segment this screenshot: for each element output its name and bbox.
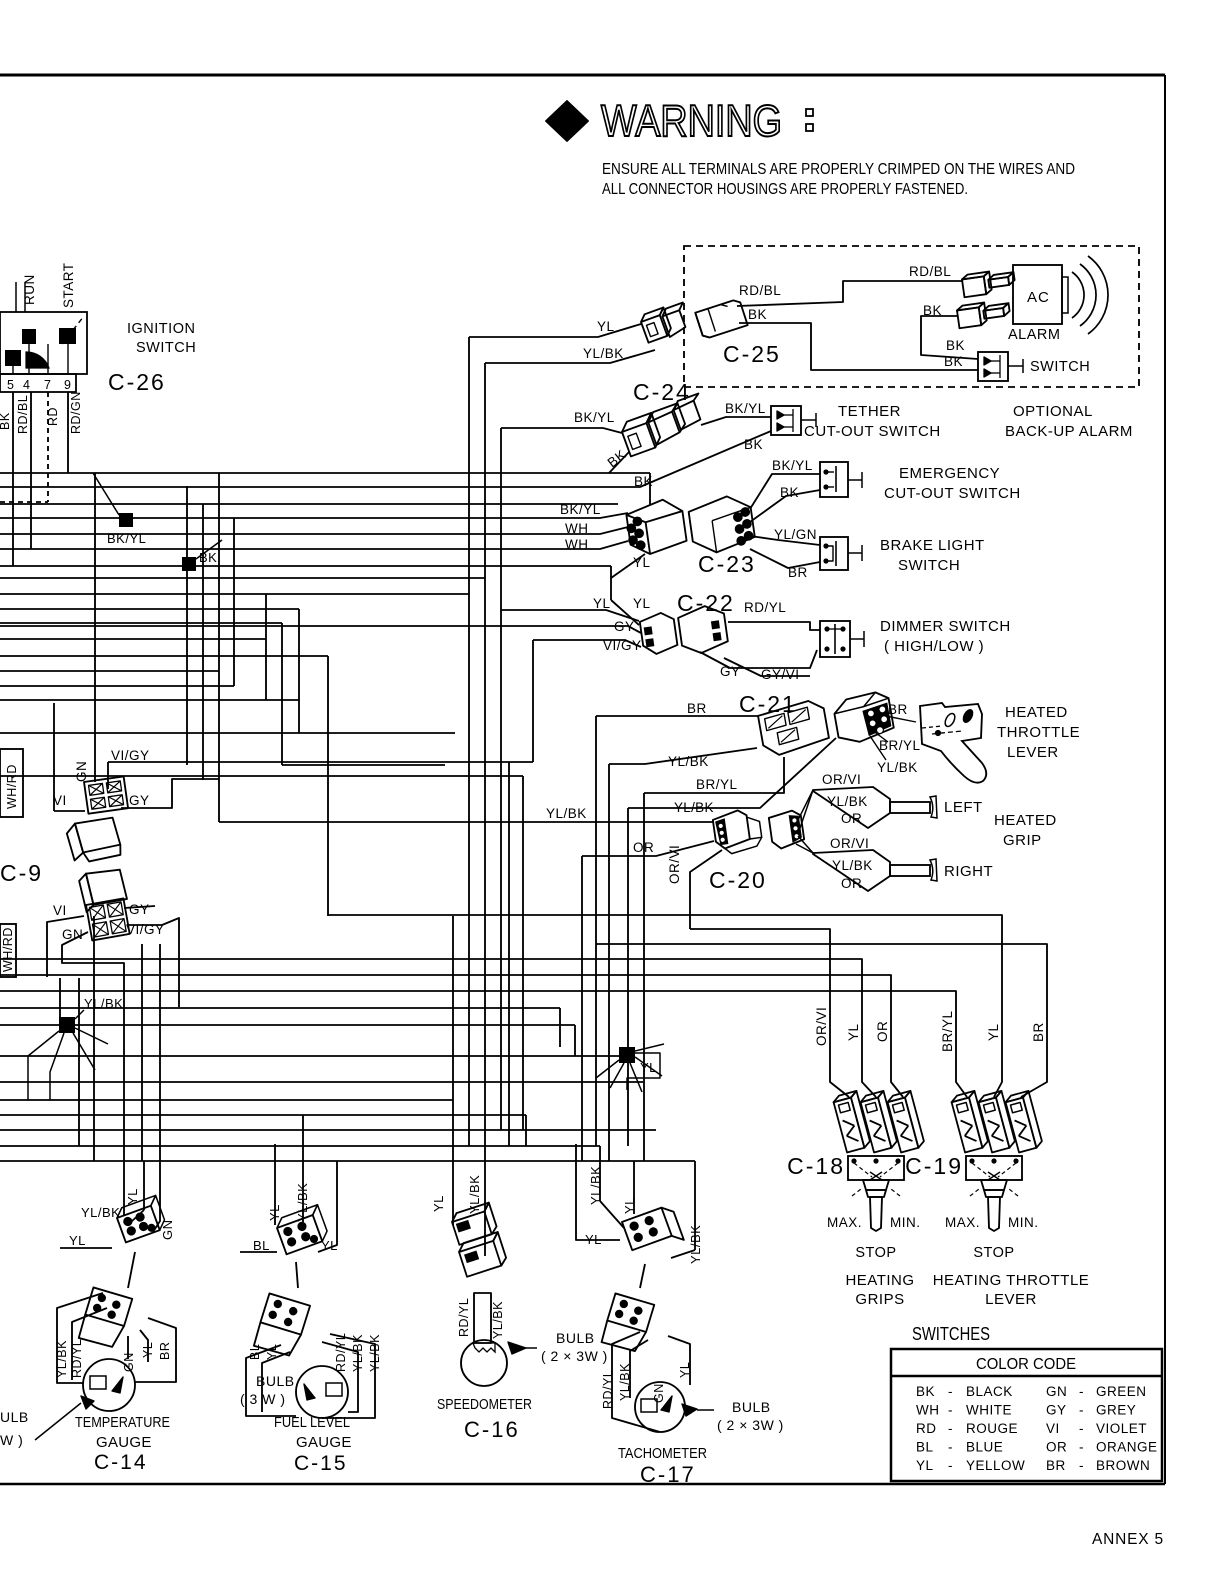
- svg-text:C-15: C-15: [294, 1452, 348, 1475]
- svg-text:C-9: C-9: [0, 860, 43, 886]
- svg-text:RD: RD: [916, 1421, 937, 1436]
- svg-text:OR: OR: [1046, 1440, 1067, 1455]
- svg-text:YL/BK: YL/BK: [491, 1301, 505, 1339]
- svg-text:CUT-OUT SWITCH: CUT-OUT SWITCH: [804, 423, 941, 440]
- svg-text:WH: WH: [565, 537, 589, 552]
- svg-text:LEFT: LEFT: [944, 799, 983, 816]
- svg-text:SWITCHES: SWITCHES: [912, 1324, 990, 1344]
- svg-text:RD/YL: RD/YL: [457, 1298, 471, 1337]
- svg-text:GN: GN: [1046, 1384, 1067, 1399]
- svg-text:( 2 × 3W ): ( 2 × 3W ): [541, 1348, 608, 1364]
- svg-text:( HIGH/LOW ): ( HIGH/LOW ): [884, 638, 984, 655]
- svg-text:RIGHT: RIGHT: [944, 863, 993, 880]
- svg-text:SWITCH: SWITCH: [1030, 359, 1090, 375]
- svg-text:GN: GN: [652, 1383, 666, 1403]
- svg-text:BK: BK: [946, 338, 965, 353]
- svg-text:GY: GY: [720, 664, 741, 679]
- svg-text:ULB: ULB: [0, 1409, 29, 1425]
- svg-text:BULB: BULB: [556, 1330, 595, 1346]
- svg-text:BK: BK: [0, 412, 12, 430]
- svg-text:YL: YL: [633, 596, 651, 611]
- svg-text:HEATING THROTTLE: HEATING THROTTLE: [933, 1272, 1090, 1289]
- svg-text:CUT-OUT SWITCH: CUT-OUT SWITCH: [884, 485, 1021, 502]
- svg-text:TETHER: TETHER: [838, 403, 901, 420]
- svg-text:HEATING: HEATING: [845, 1272, 914, 1289]
- svg-text:YELLOW: YELLOW: [966, 1458, 1025, 1473]
- svg-text:BR/YL: BR/YL: [696, 777, 738, 792]
- svg-text:GY: GY: [1046, 1403, 1067, 1418]
- svg-text:BR: BR: [1031, 1022, 1046, 1042]
- svg-text:YL/BK: YL/BK: [827, 794, 868, 809]
- svg-text:WH/RD: WH/RD: [1, 927, 15, 972]
- svg-text:VI: VI: [53, 903, 67, 918]
- svg-text:OR/VI: OR/VI: [667, 845, 682, 884]
- svg-text:YL: YL: [597, 319, 615, 334]
- svg-text:BK: BK: [944, 354, 963, 369]
- svg-text:YL/BK: YL/BK: [351, 1334, 365, 1372]
- svg-text:C-22: C-22: [677, 590, 735, 616]
- svg-text:BK: BK: [744, 437, 763, 452]
- svg-text:BROWN: BROWN: [1096, 1458, 1150, 1473]
- svg-text:C-26: C-26: [108, 369, 166, 395]
- svg-text:MAX.: MAX.: [827, 1215, 862, 1230]
- svg-text:BULB: BULB: [732, 1399, 771, 1415]
- svg-text:RD/YL: RD/YL: [70, 1339, 84, 1378]
- svg-text:RD/BL: RD/BL: [739, 283, 781, 298]
- svg-text:GREY: GREY: [1096, 1403, 1136, 1418]
- svg-text:YL/BK: YL/BK: [84, 996, 123, 1011]
- svg-text:HEATED: HEATED: [994, 812, 1057, 829]
- svg-text:YL: YL: [986, 1023, 1001, 1041]
- svg-text:GY: GY: [614, 619, 635, 634]
- svg-text:C-23: C-23: [698, 551, 756, 577]
- svg-text:VI/GY: VI/GY: [603, 638, 642, 653]
- svg-text:9: 9: [64, 378, 71, 392]
- svg-text:OR: OR: [841, 876, 862, 891]
- svg-text:YL/BK: YL/BK: [877, 760, 918, 775]
- svg-text:STOP: STOP: [855, 1245, 896, 1261]
- svg-text:-: -: [948, 1421, 953, 1436]
- svg-text:RD/GN: RD/GN: [69, 391, 83, 434]
- svg-text:FUEL LEVEL: FUEL LEVEL: [274, 1414, 350, 1431]
- svg-text:YL/BK: YL/BK: [583, 346, 624, 361]
- svg-text:OR: OR: [841, 811, 862, 826]
- svg-text:THROTTLE: THROTTLE: [997, 724, 1080, 741]
- svg-text:GREEN: GREEN: [1096, 1384, 1147, 1399]
- svg-text:BK/YL: BK/YL: [560, 502, 601, 517]
- svg-text:BR: BR: [788, 565, 808, 580]
- svg-text:YL: YL: [141, 1342, 155, 1358]
- svg-text:SPEEDOMETER: SPEEDOMETER: [437, 1396, 532, 1413]
- svg-text:MIN.: MIN.: [1008, 1215, 1039, 1230]
- svg-text:BULB: BULB: [256, 1373, 295, 1389]
- svg-text:HEATED: HEATED: [1005, 704, 1068, 721]
- svg-text:LEVER: LEVER: [985, 1291, 1037, 1308]
- svg-text:RD/BL: RD/BL: [16, 395, 30, 434]
- svg-text:C-14: C-14: [94, 1451, 148, 1474]
- svg-text:ENSURE ALL TERMINALS ARE PROPE: ENSURE ALL TERMINALS ARE PROPERLY CRIMPE…: [602, 161, 1075, 178]
- svg-text:BL: BL: [248, 1344, 262, 1360]
- svg-text:OR/VI: OR/VI: [822, 772, 861, 787]
- svg-text:VI: VI: [1046, 1421, 1060, 1436]
- svg-text:YL/GN: YL/GN: [774, 527, 817, 542]
- svg-text:OR/VI: OR/VI: [814, 1007, 829, 1046]
- svg-text:GY: GY: [129, 902, 150, 917]
- svg-text:VIOLET: VIOLET: [1096, 1421, 1147, 1436]
- svg-text:RD/BL: RD/BL: [909, 264, 951, 279]
- svg-text:EMERGENCY: EMERGENCY: [899, 465, 1000, 482]
- svg-text:RUN: RUN: [22, 274, 37, 305]
- svg-text:WH: WH: [916, 1403, 940, 1418]
- svg-text:RD/YL: RD/YL: [601, 1370, 615, 1409]
- svg-text:START: START: [61, 262, 76, 308]
- svg-text:STOP: STOP: [973, 1245, 1014, 1261]
- svg-text:YL: YL: [593, 596, 611, 611]
- svg-text:C-25: C-25: [723, 341, 781, 367]
- svg-text:YL/BK: YL/BK: [618, 1363, 632, 1401]
- svg-text:BK/YL: BK/YL: [574, 410, 615, 425]
- svg-text:ORANGE: ORANGE: [1096, 1440, 1158, 1455]
- svg-text:BK: BK: [748, 307, 767, 322]
- svg-text:-: -: [948, 1440, 953, 1455]
- svg-text:-: -: [1079, 1384, 1084, 1399]
- svg-text:YL/BK: YL/BK: [368, 1334, 382, 1372]
- svg-text:ALL CONNECTOR HOUSINGS ARE PRO: ALL CONNECTOR HOUSINGS ARE PROPERLY FAST…: [602, 181, 968, 198]
- svg-text:-: -: [948, 1384, 953, 1399]
- svg-text:TACHOMETER: TACHOMETER: [618, 1445, 707, 1462]
- svg-text:C-24: C-24: [633, 379, 691, 405]
- svg-text:-: -: [948, 1458, 953, 1473]
- svg-text:SWITCH: SWITCH: [136, 340, 196, 356]
- svg-text:YL: YL: [916, 1458, 934, 1473]
- svg-text:GAUGE: GAUGE: [96, 1434, 152, 1451]
- svg-text:7: 7: [44, 378, 51, 392]
- svg-text:WH: WH: [565, 521, 589, 536]
- svg-text:WHITE: WHITE: [966, 1403, 1012, 1418]
- svg-text:BACK-UP ALARM: BACK-UP ALARM: [1005, 423, 1133, 440]
- svg-text:-: -: [1079, 1440, 1084, 1455]
- svg-text:( 2 × 3W ): ( 2 × 3W ): [717, 1417, 784, 1433]
- svg-text:C-17: C-17: [640, 1462, 696, 1487]
- svg-text:LEVER: LEVER: [1007, 744, 1059, 761]
- svg-text:GY/VI: GY/VI: [761, 667, 800, 682]
- svg-text:OR/VI: OR/VI: [830, 836, 869, 851]
- svg-text:WH/RD: WH/RD: [5, 764, 19, 809]
- svg-text:BK/YL: BK/YL: [107, 531, 146, 546]
- svg-text:YL: YL: [69, 1233, 86, 1248]
- svg-text:GN: GN: [122, 1352, 136, 1372]
- svg-text:BR: BR: [1046, 1458, 1066, 1473]
- svg-text:SWITCH: SWITCH: [898, 557, 960, 574]
- svg-text:BL: BL: [916, 1440, 934, 1455]
- svg-text:BLUE: BLUE: [966, 1440, 1003, 1455]
- svg-text:GRIP: GRIP: [1003, 832, 1042, 849]
- svg-text:YL: YL: [846, 1023, 861, 1041]
- svg-text:-: -: [1079, 1421, 1084, 1436]
- svg-text:GAUGE: GAUGE: [296, 1434, 352, 1451]
- svg-text:BK/YL: BK/YL: [772, 458, 813, 473]
- svg-text:ANNEX 5: ANNEX 5: [1092, 1531, 1164, 1548]
- svg-text:( 3 W ): ( 3 W ): [240, 1391, 286, 1407]
- svg-text:BK: BK: [780, 485, 799, 500]
- svg-text:VI/GY: VI/GY: [111, 748, 150, 763]
- svg-text:YL: YL: [633, 555, 651, 570]
- svg-text:YL/BK: YL/BK: [55, 1340, 69, 1378]
- svg-text:ALARM: ALARM: [1008, 327, 1060, 343]
- svg-text:-: -: [948, 1403, 953, 1418]
- svg-text:C-16: C-16: [464, 1417, 520, 1442]
- svg-text:ROUGE: ROUGE: [966, 1421, 1018, 1436]
- svg-text:BR/YL: BR/YL: [940, 1010, 955, 1052]
- svg-text:RD/YL: RD/YL: [334, 1333, 348, 1372]
- svg-text:C-18: C-18: [787, 1153, 845, 1179]
- svg-text:BRAKE LIGHT: BRAKE LIGHT: [880, 537, 985, 554]
- svg-text:DIMMER SWITCH: DIMMER SWITCH: [880, 618, 1011, 635]
- svg-text:BK: BK: [923, 303, 942, 318]
- svg-text:BLACK: BLACK: [966, 1384, 1013, 1399]
- svg-text:IGNITION: IGNITION: [127, 321, 195, 337]
- svg-text:BR: BR: [158, 1342, 172, 1360]
- svg-text:TEMPERATURE: TEMPERATURE: [75, 1414, 170, 1431]
- svg-text:MIN.: MIN.: [890, 1215, 921, 1230]
- svg-text:YL: YL: [678, 1362, 692, 1378]
- svg-text:YL/BK: YL/BK: [546, 806, 587, 821]
- svg-text:YL: YL: [265, 1344, 279, 1360]
- svg-text:COLOR CODE: COLOR CODE: [976, 1356, 1076, 1373]
- svg-text:GRIPS: GRIPS: [855, 1291, 904, 1308]
- svg-text:-: -: [1079, 1458, 1084, 1473]
- svg-text:YL/BK: YL/BK: [81, 1205, 120, 1220]
- svg-text:OR: OR: [875, 1021, 890, 1042]
- svg-text:BR: BR: [888, 702, 908, 717]
- svg-text:AC: AC: [1027, 289, 1050, 306]
- svg-text:RD/YL: RD/YL: [744, 600, 786, 615]
- svg-text:OR: OR: [633, 840, 654, 855]
- svg-text:GN: GN: [74, 761, 89, 782]
- svg-text:VI: VI: [53, 793, 67, 808]
- svg-text:BR: BR: [687, 701, 707, 716]
- svg-text:YL: YL: [431, 1195, 446, 1212]
- svg-text:BK: BK: [634, 474, 653, 489]
- svg-text:BK/YL: BK/YL: [725, 401, 766, 416]
- svg-text:5: 5: [7, 378, 14, 392]
- svg-text:BK: BK: [199, 550, 217, 565]
- svg-text:4: 4: [23, 378, 30, 392]
- svg-text:OPTIONAL: OPTIONAL: [1013, 403, 1093, 420]
- svg-text:GN: GN: [160, 1220, 175, 1241]
- svg-text:BK: BK: [916, 1384, 935, 1399]
- svg-text:MAX.: MAX.: [945, 1215, 980, 1230]
- svg-text:RD: RD: [46, 407, 60, 426]
- svg-text:BL: BL: [253, 1238, 270, 1253]
- svg-text:C-19: C-19: [905, 1153, 963, 1179]
- svg-text:GY: GY: [129, 793, 150, 808]
- svg-text:W ): W ): [0, 1432, 23, 1448]
- svg-text:-: -: [1079, 1403, 1084, 1418]
- svg-text:C-20: C-20: [709, 867, 767, 893]
- svg-text:WARNING: WARNING: [601, 97, 782, 147]
